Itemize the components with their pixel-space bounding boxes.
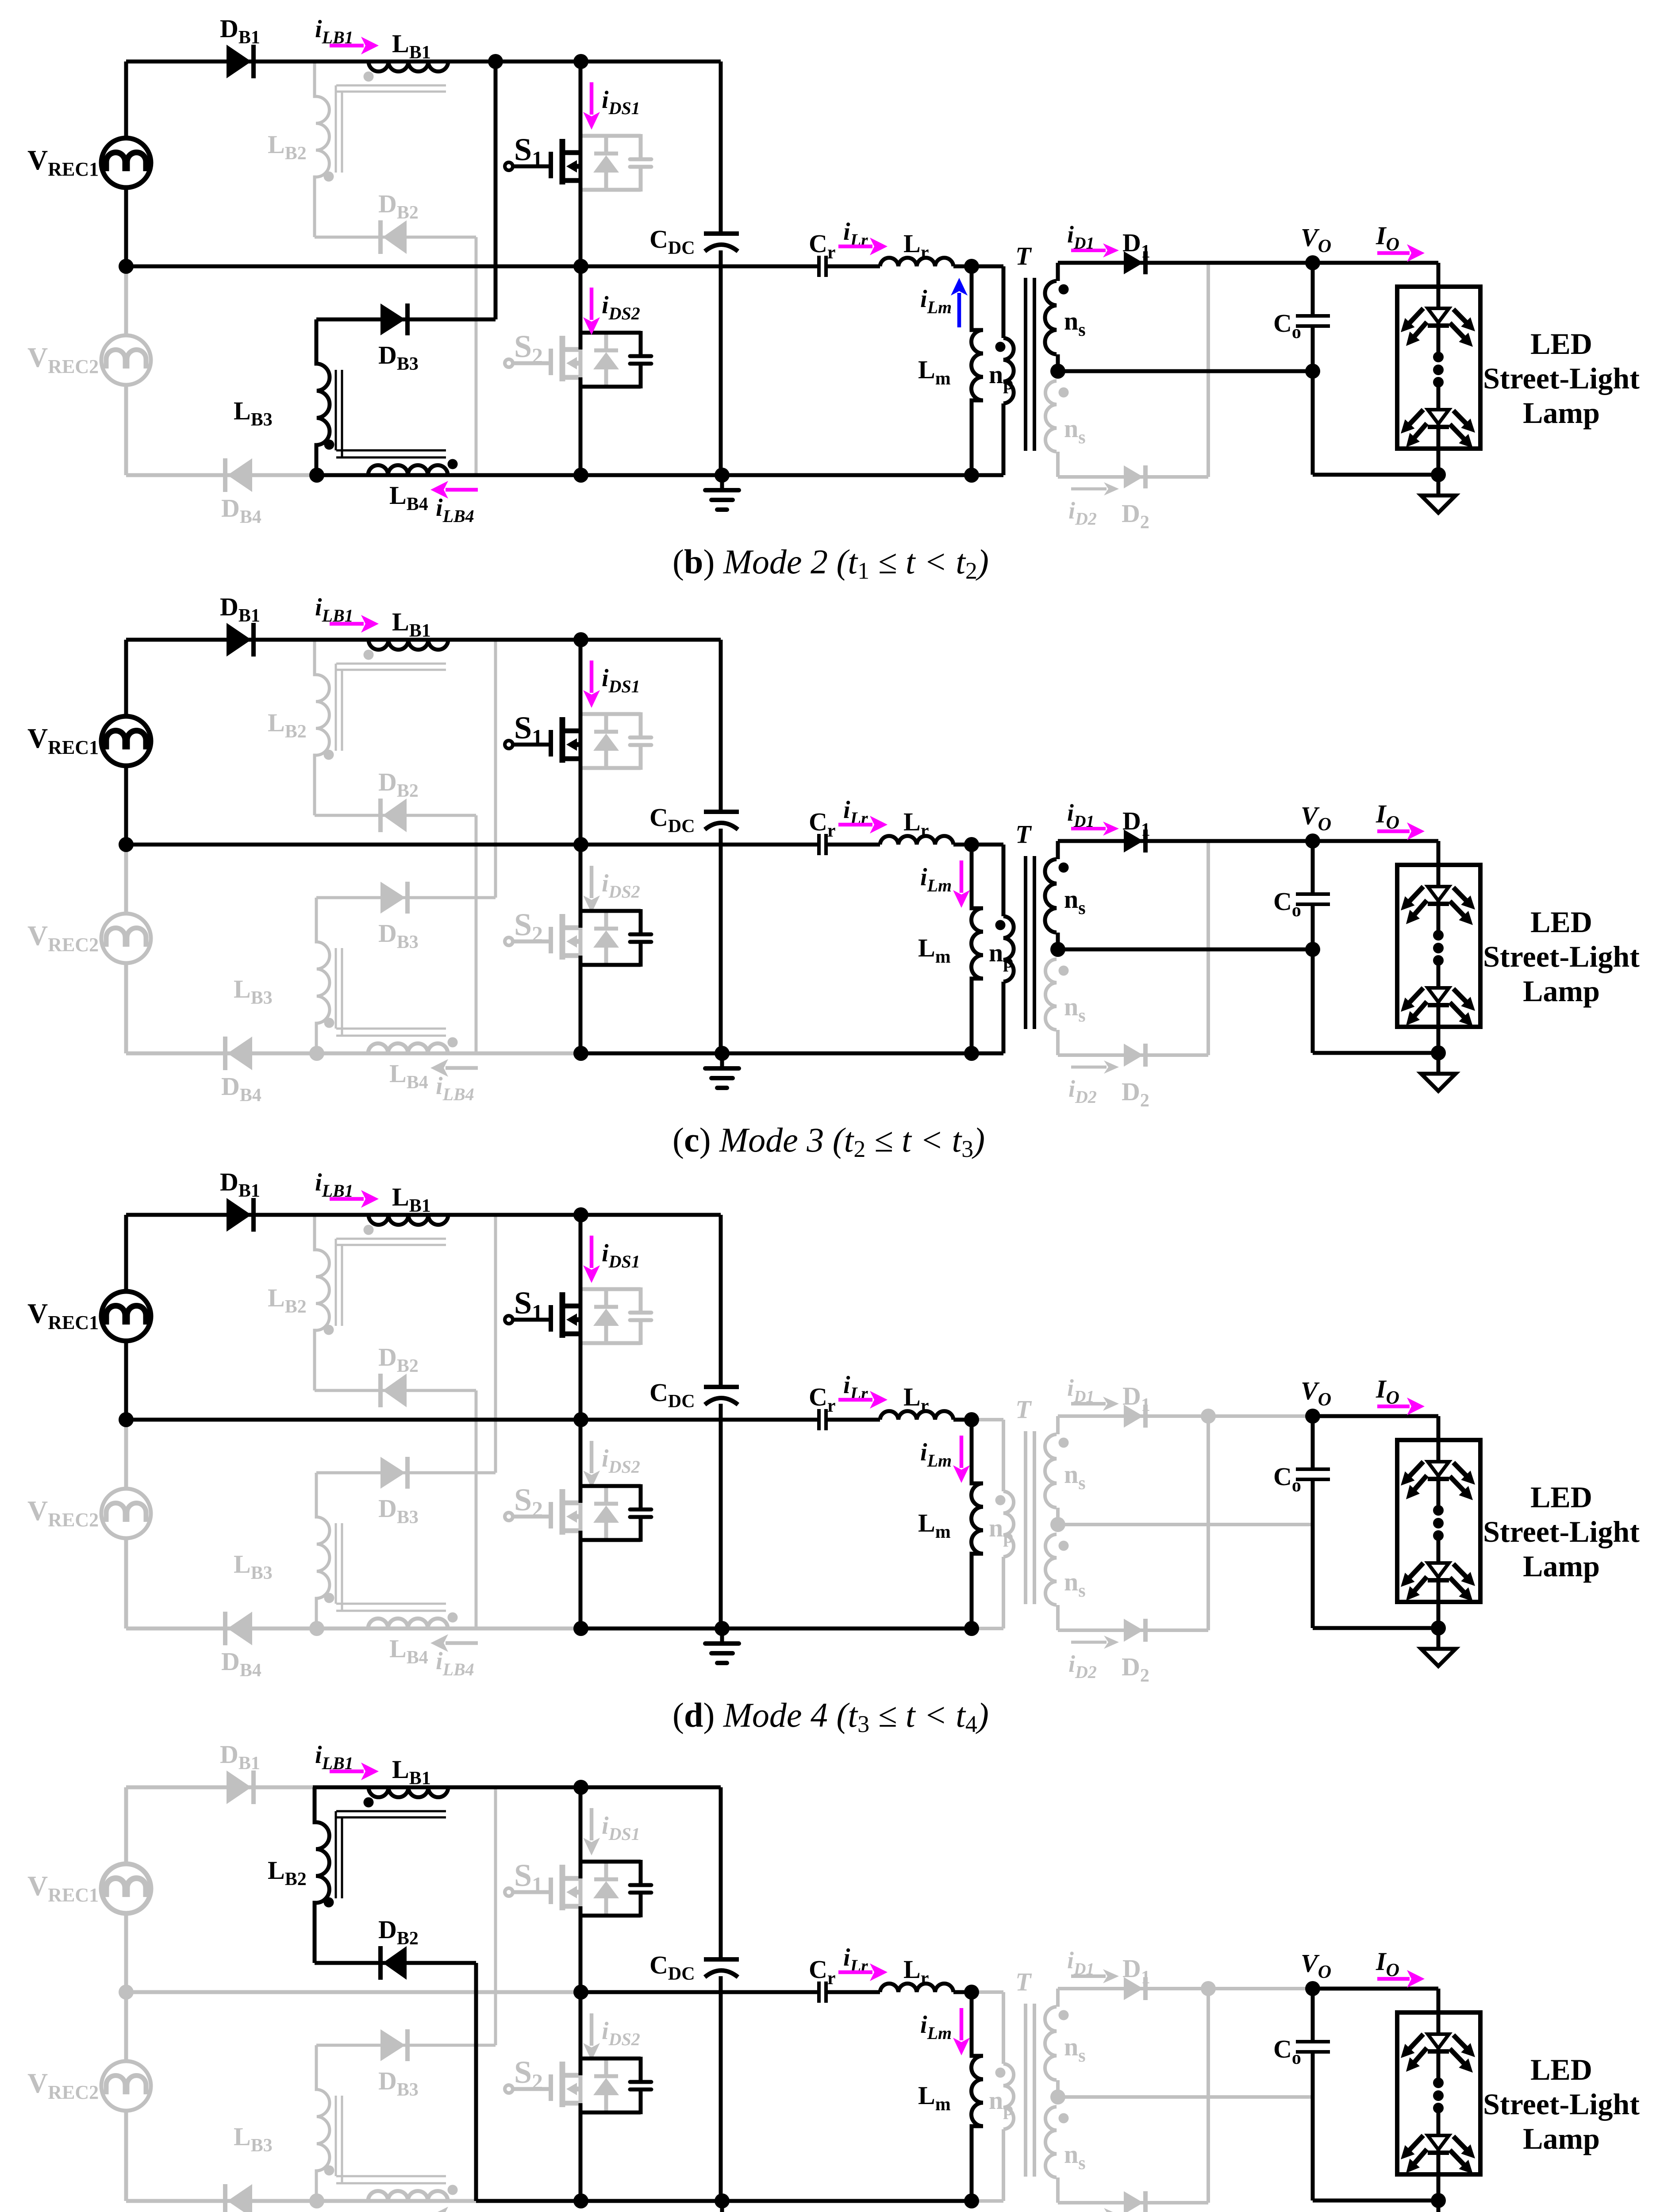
- wire Lr to node (panel b): [953, 265, 972, 269]
- label iDS2 (panel d): [602, 1445, 640, 1477]
- svg-text:CDC: CDC: [649, 225, 695, 258]
- wire Lm top lead (panel e): [970, 1992, 974, 2056]
- inductor LB3 (panel d): [315, 1517, 330, 1598]
- transistor S2 (panel b): [505, 336, 580, 381]
- polarity dot ns2 (panel b): [1059, 388, 1069, 398]
- label iLB4 (panel c): [436, 1072, 474, 1104]
- label VREC1 (panel e): [27, 1870, 99, 1906]
- LED D-led1 (panel e): [1401, 2034, 1475, 2073]
- wire top rail right segment (panel d): [313, 1213, 721, 1217]
- node dot switches on mid rail (panel b): [573, 259, 588, 274]
- svg-text:(c) Mode 3 (t2 ≤ t < t3): (c) Mode 3 (t2 ≤ t < t3): [672, 1121, 985, 1162]
- svg-text:Lr: Lr: [903, 807, 929, 841]
- svg-text:DB1: DB1: [220, 592, 260, 626]
- wire CDC bottom (panel d): [719, 1404, 723, 1628]
- label LB1 (panel d): [392, 1183, 431, 1216]
- svg-text:VREC1: VREC1: [27, 722, 99, 758]
- label iD1 (panel c): [1067, 799, 1094, 831]
- wire DB2 vertical to bottom rail (panel e): [474, 1963, 478, 2201]
- label CDC (panel c): [649, 803, 695, 837]
- arrow iDS1 (panel c): [583, 661, 600, 708]
- svg-text:S2: S2: [514, 907, 543, 946]
- label IO (panel d): [1376, 1375, 1399, 1408]
- wire top rail left segment (panel d): [126, 1213, 315, 1217]
- label LB2 (panel b): [268, 130, 307, 164]
- polarity dot LB3 (panel d): [324, 1593, 334, 1603]
- wire LB2 top lead (panel d): [313, 1215, 316, 1250]
- polarity dot LB4 (panel e): [448, 2185, 458, 2195]
- winding ns1 (panel d): [1045, 1434, 1057, 1508]
- svg-text:ns: ns: [1064, 2032, 1086, 2066]
- arrow iDS2 (panel e): [583, 2013, 600, 2061]
- label iLB4 (panel d): [436, 1647, 474, 1679]
- wire ns1 top lead (panel c): [1056, 841, 1060, 859]
- wire mid rail left (panel b): [126, 265, 581, 269]
- wire between LEDs upper (panel e): [1437, 2048, 1441, 2083]
- arrow iLm (panel e): [953, 2008, 970, 2055]
- arrow IO (panel b): [1377, 244, 1425, 262]
- wire Lr to node (panel e): [953, 1990, 972, 1994]
- label Cr (panel e): [809, 1955, 836, 1989]
- wire VREC1 bottom lead (panel e): [124, 1913, 128, 1992]
- output ground symbol (panel b): [1421, 495, 1456, 513]
- diode DB2 (panel b): [380, 220, 407, 254]
- wire LB2 bottom lead (panel d): [313, 1330, 316, 1390]
- label LB3 (panel e): [234, 2122, 273, 2156]
- wire output top (panel d): [1313, 1414, 1438, 1418]
- node dot LB3-LB4 (panel b): [309, 468, 324, 483]
- label T (panel e): [1015, 1967, 1032, 1996]
- svg-text:LB2: LB2: [268, 708, 307, 742]
- label S2 (panel c): [514, 907, 543, 946]
- wire VREC2 top lead (panel c): [124, 845, 128, 914]
- wire DB2 row (panel c): [315, 814, 476, 817]
- node dot VO (panel e): [1305, 1981, 1320, 1996]
- svg-text:CDC: CDC: [649, 1951, 695, 1984]
- svg-text:VREC2: VREC2: [27, 920, 99, 956]
- wire np to bottom rail (panel e): [972, 2199, 1003, 2203]
- svg-text:LB3: LB3: [234, 396, 273, 430]
- node dot mid rail left (panel b): [119, 259, 134, 274]
- svg-text:iDS2: iDS2: [602, 1445, 640, 1477]
- capacitor Co (panel b): [1296, 316, 1330, 326]
- label LB1 (panel c): [392, 607, 431, 641]
- wire S2 source (panel b): [579, 377, 583, 475]
- diode DB2 (panel e): [380, 1946, 407, 1980]
- wire S1 drain (panel d): [579, 1215, 583, 1306]
- wire between LEDs lower (panel b): [1437, 382, 1441, 410]
- polarity dot LB2 (panel c): [324, 750, 334, 760]
- svg-text:Lamp: Lamp: [1523, 396, 1600, 430]
- ground symbol (panel d): [705, 1628, 739, 1663]
- wire ns2 bottom lead (panel e): [1056, 2177, 1060, 2203]
- wire output bottom (panel c): [1313, 1051, 1438, 1055]
- label D1 (panel e): [1122, 1954, 1150, 1988]
- wire D2 row (panel b): [1058, 475, 1208, 479]
- label VREC1 (panel d): [27, 1298, 99, 1333]
- node dot ground on bottom rail (panel b): [715, 468, 730, 483]
- wire mid rail right (panel e): [581, 1990, 817, 1994]
- wire np to bottom rail (panel c): [972, 1052, 1003, 1056]
- svg-text:DB2: DB2: [378, 189, 419, 223]
- svg-text:Lamp: Lamp: [1523, 1549, 1600, 1583]
- label DB1 (panel e): [220, 1740, 260, 1774]
- label DB3 (panel e): [378, 2066, 419, 2100]
- winding ns1 (panel c): [1045, 859, 1057, 933]
- svg-text:iLB1: iLB1: [315, 1169, 354, 1201]
- node dot resonant node (panel e): [964, 1985, 979, 2000]
- wire to output ground (panel c): [1437, 1053, 1441, 1074]
- wire ns2 bottom lead (panel d): [1056, 1605, 1060, 1630]
- wire DB2 vertical to bottom rail (panel c): [475, 815, 478, 1053]
- wire LB2 top lead (panel b): [313, 61, 316, 96]
- diode DB3 (panel b): [380, 303, 407, 335]
- svg-text:LB3: LB3: [234, 1550, 273, 1583]
- winding ns2 (panel b): [1045, 381, 1057, 452]
- label LB4 (panel c): [389, 1059, 428, 1093]
- label D1 (panel d): [1122, 1382, 1150, 1415]
- wire secondary top (panel d): [1058, 1414, 1313, 1418]
- node dot resonant node (panel d): [964, 1412, 979, 1427]
- polarity dot np (panel b): [995, 342, 1006, 352]
- node dot S1 drain on top rail (panel e): [573, 1780, 588, 1795]
- inductor LB1 (panel b): [369, 61, 448, 72]
- winding np (panel e): [1003, 2064, 1014, 2129]
- label VO (panel b): [1301, 223, 1331, 257]
- label ns1 (panel d): [1064, 1460, 1086, 1494]
- wire S2 source (panel e): [579, 2103, 583, 2201]
- svg-text:Lm: Lm: [918, 355, 951, 389]
- label LB1 (panel b): [392, 29, 431, 63]
- wire bottom rail middle segment (panel e): [476, 2199, 581, 2203]
- label np (panel d): [989, 1513, 1014, 1547]
- transformer core (panel e): [1026, 2004, 1034, 2177]
- wire CDC top (panel c): [719, 640, 723, 812]
- node dot D2 branch top (panel d): [1201, 1409, 1216, 1424]
- wire mid rail left (panel e): [126, 1990, 581, 1994]
- svg-text:VO: VO: [1301, 801, 1331, 835]
- diode DB1 (panel b): [227, 45, 254, 78]
- label LB3 (panel b): [234, 396, 273, 430]
- node dot lamp bottom (panel b): [1431, 467, 1446, 482]
- node dot VO (panel c): [1305, 833, 1320, 849]
- svg-text:LB2: LB2: [268, 130, 307, 164]
- wire between LEDs lower (panel c): [1437, 960, 1441, 988]
- svg-text:iLB4: iLB4: [436, 1072, 474, 1104]
- wire Cr to Lr (panel b): [826, 265, 880, 269]
- wire between LEDs lower (panel d): [1437, 1536, 1441, 1563]
- wire ns1 bottom lead (panel d): [1056, 1508, 1060, 1525]
- wire VREC1 bottom lead (panel b): [124, 188, 128, 266]
- capacitor Co (panel e): [1296, 2042, 1330, 2052]
- wire Lm bottom lead (panel c): [970, 979, 974, 1053]
- svg-text:VREC1: VREC1: [27, 144, 99, 180]
- svg-text:ns: ns: [1064, 1460, 1086, 1494]
- svg-text:Co: Co: [1273, 309, 1301, 342]
- capacitor Cr (panel e): [819, 1982, 826, 2003]
- wire node to np (panel c): [972, 843, 1003, 847]
- inductor Lm (panel c): [970, 908, 984, 979]
- transistor S1 (panel d): [505, 1292, 580, 1338]
- label T (panel b): [1015, 242, 1032, 270]
- diode DB3 (panel c): [380, 882, 407, 914]
- snubber bracket and capacitor of S2 (panel d): [580, 1484, 651, 1542]
- node dot S1 drain on top rail (panel b): [573, 54, 588, 69]
- svg-text:VREC2: VREC2: [27, 1495, 99, 1531]
- wire node to np (panel d): [972, 1418, 1003, 1421]
- svg-text:S2: S2: [514, 1482, 543, 1521]
- diode DB1 (panel d): [227, 1198, 254, 1232]
- svg-text:LB1: LB1: [392, 1755, 431, 1789]
- svg-text:Cr: Cr: [809, 1955, 836, 1989]
- svg-text:DB3: DB3: [378, 2066, 419, 2100]
- svg-text:Lm: Lm: [918, 933, 951, 967]
- polarity dot np (panel e): [995, 2068, 1006, 2078]
- wire CDC top (panel d): [719, 1215, 723, 1387]
- wire DB2 vertical to bottom rail (panel d): [475, 1390, 478, 1628]
- node dot resonant node (panel b): [964, 259, 979, 274]
- svg-text:Lr: Lr: [903, 1382, 929, 1416]
- wire LB3 top lead (panel c): [315, 898, 318, 942]
- polarity dot LB4 (panel b): [448, 459, 458, 469]
- winding ns2 (panel d): [1045, 1534, 1057, 1605]
- svg-text:np: np: [989, 1513, 1014, 1547]
- node dot LB3-LB4 (panel e): [309, 2193, 324, 2208]
- inductor LB3 (panel b): [315, 364, 330, 445]
- core lines LB1-LB2 (panel b): [336, 85, 446, 173]
- winding ns2 (panel c): [1045, 959, 1057, 1030]
- arrow iDS1 (panel e): [583, 1808, 600, 1855]
- label ns1 (panel b): [1064, 307, 1086, 340]
- label iLr (panel b): [843, 218, 868, 250]
- core lines LB3-LB4 (panel c): [336, 948, 446, 1036]
- svg-text:iDS2: iDS2: [602, 2017, 640, 2049]
- inductor LB4 (panel d): [368, 1619, 448, 1628]
- polarity dot ns2 (panel e): [1059, 2113, 1069, 2124]
- inductor Lm (panel b): [970, 330, 984, 400]
- svg-text:IO: IO: [1376, 1375, 1399, 1408]
- polarity dot ns2 (panel d): [1059, 1541, 1069, 1551]
- svg-text:DB2: DB2: [378, 1915, 419, 1949]
- wire lamp top lead (panel e): [1437, 1989, 1441, 2034]
- wire bottom rail right segment (panel e): [581, 2199, 972, 2203]
- label iLB1 (panel d): [315, 1169, 354, 1201]
- svg-text:LED: LED: [1530, 1480, 1592, 1514]
- inductor LB1 (panel d): [369, 1215, 448, 1225]
- wire secondary top (panel c): [1058, 839, 1313, 843]
- svg-text:ns: ns: [1064, 1567, 1086, 1601]
- snubber bracket and capacitor of S1 (panel d): [580, 1287, 651, 1345]
- wire D2 vertical (panel c): [1207, 841, 1210, 1055]
- wire bottom rail middle segment (panel d): [476, 1627, 581, 1631]
- wire Co bottom lead (panel b): [1311, 328, 1315, 475]
- wire Co top lead (panel d): [1311, 1416, 1315, 1467]
- body diode of S2 (panel c): [593, 911, 619, 965]
- label iLB1 (panel e): [315, 1741, 354, 1773]
- svg-text:VO: VO: [1301, 1949, 1331, 1982]
- inductor LB4 (panel b): [368, 465, 448, 476]
- svg-text:LED: LED: [1530, 327, 1592, 361]
- ground symbol (panel b): [705, 475, 739, 510]
- svg-text:iLB1: iLB1: [315, 15, 354, 47]
- svg-text:Street-Light: Street-Light: [1483, 2087, 1640, 2121]
- wire bottom rail middle segment (panel b): [476, 473, 581, 477]
- wire np top lead (panel e): [1002, 1992, 1005, 2064]
- diode DB1 (panel c): [227, 623, 254, 657]
- label VO (panel d): [1301, 1376, 1331, 1410]
- output ground symbol (panel d): [1421, 1649, 1456, 1666]
- svg-text:IO: IO: [1376, 1947, 1399, 1981]
- svg-text:LB1: LB1: [392, 1183, 431, 1216]
- wire lamp top lead (panel c): [1437, 841, 1441, 887]
- wire D2 vertical (panel b): [1207, 263, 1210, 477]
- wire DB2 row (panel e): [315, 1961, 476, 1965]
- label S1 (panel e): [514, 1858, 543, 1897]
- wire S1 drain (panel c): [579, 640, 583, 731]
- winding np (panel d): [1003, 1491, 1014, 1557]
- polarity dot LB2 (panel d): [324, 1325, 334, 1335]
- wire D2 row (panel e): [1058, 2201, 1208, 2204]
- svg-text:S2: S2: [514, 329, 543, 368]
- wire lamp bottom lead (panel c): [1437, 1002, 1441, 1053]
- label VREC2 (panel c): [27, 920, 99, 956]
- LED D-led1 (panel c): [1401, 887, 1475, 925]
- arrow iD2 (panel d): [1071, 1636, 1119, 1649]
- source VREC2 (panel e): [101, 2061, 151, 2111]
- svg-text:T: T: [1015, 242, 1032, 270]
- label iLB1 (panel b): [315, 15, 354, 47]
- polarity dot LB4 (panel d): [448, 1613, 458, 1623]
- arrow iLB1 (panel e): [330, 1763, 379, 1780]
- wire np to bottom rail (panel d): [972, 1627, 1003, 1630]
- svg-text:LED: LED: [1530, 905, 1592, 939]
- wire VREC2 bottom lead (panel c): [124, 963, 128, 1053]
- svg-text:D1: D1: [1122, 1954, 1150, 1988]
- label S1 (panel c): [514, 710, 543, 749]
- wire Lm bottom lead (panel e): [970, 2126, 974, 2201]
- wire DB3 row (panel c): [316, 896, 496, 899]
- wire S1 source (panel b): [579, 180, 583, 266]
- caption (panel d): [672, 1696, 989, 1737]
- label iD2 (panel d): [1068, 1651, 1097, 1682]
- LED lamp box (panel d): [1397, 1440, 1480, 1602]
- label CDC (panel d): [649, 1378, 695, 1412]
- wire bottom rail LB4 segment (panel e): [317, 2199, 476, 2203]
- capacitor Cr (panel c): [819, 834, 826, 855]
- label T (panel d): [1015, 1395, 1032, 1424]
- svg-text:(b) Mode 2 (t1 ≤ t < t2): (b) Mode 2 (t1 ≤ t < t2): [672, 542, 989, 584]
- label Lm (panel c): [918, 933, 951, 967]
- label S2 (panel b): [514, 329, 543, 368]
- svg-text:LB2: LB2: [268, 1856, 307, 1889]
- arrow iD2 (panel e): [1071, 2208, 1119, 2212]
- wire np bottom lead (panel b): [1002, 403, 1006, 475]
- label T (panel c): [1015, 820, 1032, 849]
- label S2 (panel d): [514, 1482, 543, 1521]
- diode DB4 (panel e): [225, 2184, 252, 2212]
- inductor Lr (panel e): [880, 1984, 953, 1992]
- arrow iLm (panel b): [951, 278, 968, 327]
- svg-text:Co: Co: [1273, 1462, 1301, 1496]
- arrow iDS2 (panel b): [583, 288, 600, 335]
- svg-text:(d) Mode 4 (t3 ≤ t < t4): (d) Mode 4 (t3 ≤ t < t4): [672, 1696, 989, 1737]
- body diode of S2 (panel b): [593, 333, 619, 387]
- node dot DB3 on top rail (panel b): [488, 54, 503, 69]
- LED lamp box (panel b): [1397, 287, 1480, 449]
- wire Cr to Lr (panel c): [826, 843, 880, 847]
- wire between LEDs upper (panel b): [1437, 323, 1441, 357]
- node dot switches on mid rail (panel d): [573, 1412, 588, 1427]
- svg-text:iLm: iLm: [920, 1439, 952, 1471]
- capacitor CDC (panel d): [704, 1387, 739, 1405]
- wire D2 vertical (panel d): [1207, 1416, 1210, 1630]
- svg-text:iLB1: iLB1: [315, 594, 354, 626]
- wire VREC1 top lead (panel d): [124, 1215, 128, 1291]
- snubber bracket and capacitor of S2 (panel b): [580, 331, 651, 388]
- wire np top lead (panel b): [1002, 266, 1006, 338]
- wire VREC2 top lead (panel b): [124, 266, 128, 335]
- wire LB3 bottom lead (panel c): [315, 1023, 318, 1053]
- wire output top (panel c): [1313, 839, 1438, 843]
- arrow iLB1 (panel b): [330, 37, 379, 54]
- label VREC2 (panel d): [27, 1495, 99, 1531]
- svg-text:iD2: iD2: [1068, 1651, 1097, 1682]
- svg-text:Lr: Lr: [903, 1955, 929, 1989]
- svg-text:Street-Light: Street-Light: [1483, 361, 1640, 395]
- label D1 (panel c): [1122, 806, 1150, 840]
- svg-text:Lm: Lm: [918, 1509, 951, 1542]
- arrow iLB4 (panel e): [430, 2207, 478, 2212]
- wire Lr to node (panel c): [953, 843, 972, 847]
- wire LB2 top lead (panel c): [313, 640, 316, 675]
- label LED Street-Light Lamp (panel d): [1483, 1480, 1640, 1583]
- wire S2 drain (panel d): [579, 1420, 583, 1503]
- svg-text:iLm: iLm: [920, 285, 952, 317]
- arrow iLm (panel d): [953, 1436, 970, 1483]
- inductor Lm (panel d): [970, 1483, 984, 1554]
- wire VREC2 top lead (panel e): [124, 1992, 128, 2061]
- wire center tap (panel c): [1058, 948, 1313, 952]
- label LB2 (panel d): [268, 1283, 307, 1317]
- label iLm (panel d): [920, 1439, 952, 1471]
- label iDS2 (panel b): [602, 292, 640, 323]
- svg-text:np: np: [989, 2086, 1014, 2120]
- label iDS1 (panel e): [602, 1812, 640, 1844]
- node dot ground on bottom rail (panel d): [715, 1621, 730, 1636]
- wire DB3 vertical from top rail (panel d): [494, 1215, 497, 1473]
- wire Cr to Lr (panel e): [826, 1990, 880, 1994]
- diode DB2 (panel c): [380, 799, 407, 832]
- label IO (panel b): [1376, 221, 1399, 255]
- node dot mid rail left (panel e): [119, 1985, 134, 2000]
- wire DB3 vertical from top rail (panel c): [494, 640, 497, 898]
- svg-text:LB1: LB1: [392, 29, 431, 63]
- svg-text:Cr: Cr: [809, 229, 836, 263]
- label LB4 (panel d): [389, 1634, 428, 1668]
- svg-text:iDS1: iDS1: [602, 1812, 640, 1844]
- arrow iDS2 (panel d): [583, 1441, 600, 1488]
- wire top rail left segment (panel e): [126, 1786, 315, 1790]
- label DB1 (panel b): [220, 14, 260, 48]
- arrow iD2 (panel c): [1071, 1060, 1119, 1074]
- label LB3 (panel c): [234, 975, 273, 1008]
- svg-text:VREC1: VREC1: [27, 1870, 99, 1906]
- snubber bracket and capacitor of S1 (panel e): [580, 1860, 651, 1917]
- label np (panel e): [989, 2086, 1014, 2120]
- label DB4 (panel c): [221, 1072, 261, 1106]
- core lines LB1-LB2 (panel d): [336, 1239, 446, 1326]
- label DB2 (panel d): [378, 1343, 419, 1376]
